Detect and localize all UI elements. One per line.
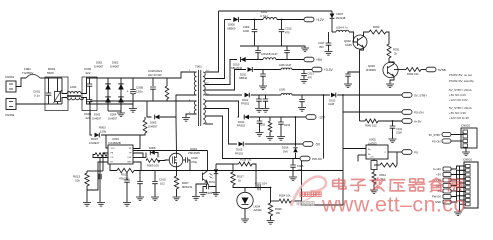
wire xyxy=(277,19,304,21)
resistor R042 xyxy=(371,161,377,170)
wire xyxy=(331,11,333,32)
svg-text:D008: D008 xyxy=(149,146,156,150)
watermark line 1 xyxy=(333,178,463,192)
wire xyxy=(254,69,282,71)
ground xyxy=(199,193,207,197)
wire xyxy=(295,144,297,159)
svg-text:PW-OK: PW-OK xyxy=(312,157,322,161)
wire xyxy=(106,135,140,149)
svg-text:L004 4.7u: L004 4.7u xyxy=(336,26,348,30)
svg-text:45V: 45V xyxy=(319,45,324,49)
terminal +3.3V xyxy=(443,178,451,182)
label D007b xyxy=(336,12,346,20)
resistor R011 xyxy=(95,153,107,157)
wire xyxy=(62,98,67,105)
label R032 xyxy=(407,72,419,76)
svg-text:47k/2W: 47k/2W xyxy=(119,177,129,181)
label L004 xyxy=(336,26,348,30)
wire bus xyxy=(460,166,466,204)
pin 4 xyxy=(189,112,191,114)
wire xyxy=(207,151,209,171)
wire xyxy=(166,99,168,101)
wire xyxy=(207,170,209,172)
label CN502 xyxy=(5,113,15,117)
wire xyxy=(120,78,122,111)
wire xyxy=(292,167,294,176)
svg-text:5V_STBY= 20mA: 5V_STBY= 20mA xyxy=(449,88,472,92)
wire xyxy=(240,46,305,48)
ground xyxy=(182,118,190,122)
ground xyxy=(129,104,137,112)
wire xyxy=(45,78,49,93)
pin 3 xyxy=(189,100,191,102)
svg-text:D010: D010 xyxy=(233,62,240,66)
terminal 5VSB xyxy=(426,67,436,72)
wire xyxy=(81,98,97,105)
capacitor C025 xyxy=(290,159,296,168)
wire xyxy=(311,204,343,206)
resistor R012 xyxy=(117,168,134,172)
svg-text:A+12V: A+12V xyxy=(433,167,441,171)
wire xyxy=(205,70,246,91)
wire xyxy=(292,69,312,71)
svg-text:1000: 1000 xyxy=(243,29,249,33)
label 5V_STBY xyxy=(414,94,427,98)
inductor L005 xyxy=(281,93,292,95)
ground xyxy=(241,219,249,223)
note line 1 xyxy=(449,73,472,77)
transistor Q003 xyxy=(383,62,398,77)
inductor L003 xyxy=(263,58,276,60)
capacitor C006 xyxy=(99,174,101,180)
wire xyxy=(451,196,466,202)
capacitor C015 xyxy=(152,171,158,184)
label 5V_STBY2 xyxy=(429,133,441,137)
label C003 xyxy=(84,112,92,120)
svg-text:A+5V: A+5V xyxy=(414,120,421,124)
label PW-OK xyxy=(432,195,441,199)
svg-text:SB560: SB560 xyxy=(227,26,236,30)
connector CN502 (AC neutral) xyxy=(6,99,16,110)
wire xyxy=(45,95,49,104)
wire xyxy=(205,20,225,79)
capacitor C019 xyxy=(345,74,351,76)
wire xyxy=(103,153,108,171)
label R017 xyxy=(237,175,244,183)
svg-text:0.1u: 0.1u xyxy=(34,94,40,98)
svg-text:D002: D002 xyxy=(112,61,119,65)
wire xyxy=(90,100,197,102)
svg-text:2N3906: 2N3906 xyxy=(366,68,376,72)
transformer T001 secondary winding 1 xyxy=(203,72,205,95)
label R033 xyxy=(259,124,266,127)
wire xyxy=(107,78,109,111)
wire xyxy=(57,78,59,92)
label PW-OK xyxy=(312,157,322,161)
wire xyxy=(270,188,272,204)
label R044 xyxy=(380,173,387,181)
svg-text:+5V NO 4.9V: +5V NO 4.9V xyxy=(449,111,466,115)
label C034 xyxy=(284,124,291,127)
choke L001 xyxy=(67,92,84,100)
wire xyxy=(176,171,178,177)
svg-text:2SK2645: 2SK2645 xyxy=(188,151,200,155)
note line 4 xyxy=(449,93,466,97)
diode U003 opto LED xyxy=(210,169,219,178)
label +5V pin xyxy=(370,157,374,159)
svg-text:FR302: FR302 xyxy=(237,124,246,128)
svg-text:1N4148: 1N4148 xyxy=(336,16,346,20)
terminal A+5V xyxy=(402,119,412,124)
wire xyxy=(337,94,402,96)
svg-text:L003A/B 10uH: L003A/B 10uH xyxy=(261,53,277,56)
ground xyxy=(344,84,352,88)
svg-text:D013: D013 xyxy=(329,98,336,102)
node xyxy=(254,19,256,21)
wire xyxy=(374,152,397,165)
ground xyxy=(123,203,131,207)
resistor R030 xyxy=(369,30,386,34)
svg-text:560K: 560K xyxy=(47,71,54,75)
ground xyxy=(325,52,333,56)
capacitor C009 xyxy=(252,20,258,32)
wire xyxy=(205,60,237,85)
label R041 xyxy=(365,123,377,127)
label U005 xyxy=(368,138,377,146)
label -5V xyxy=(437,189,441,193)
svg-text:D005: D005 xyxy=(150,121,157,125)
node xyxy=(295,116,297,145)
varistor R001 xyxy=(54,90,62,103)
wire xyxy=(153,100,167,102)
svg-text:+12V NO 0.0V: +12V NO 0.0V xyxy=(449,98,468,102)
label GND xyxy=(435,200,441,204)
terminal +5V xyxy=(443,173,451,177)
wire xyxy=(133,157,146,159)
wire xyxy=(134,170,343,172)
node xyxy=(323,94,325,96)
svg-text:+5V NO 0.0V: +5V NO 0.0V xyxy=(449,93,466,97)
wire xyxy=(246,59,263,61)
wire xyxy=(244,209,246,219)
label A+12V xyxy=(433,167,441,171)
terminal +12V xyxy=(304,17,314,22)
svg-text:D004: D004 xyxy=(110,113,117,117)
wire xyxy=(101,135,108,148)
ground xyxy=(370,190,378,194)
wire xyxy=(244,188,246,193)
svg-text:CN501: CN501 xyxy=(5,75,15,79)
label R031 xyxy=(393,48,400,56)
svg-text:+12V: +12V xyxy=(316,18,325,22)
transformer T001 secondary winding 2 xyxy=(203,99,205,124)
capacitor C030 xyxy=(256,95,262,108)
svg-text:R032 10k: R032 10k xyxy=(407,72,419,76)
ground xyxy=(136,197,144,201)
pin 10 xyxy=(206,94,209,96)
ground xyxy=(256,133,264,137)
svg-text:10k: 10k xyxy=(75,179,80,183)
wire xyxy=(451,187,466,191)
pin 7 xyxy=(206,107,208,109)
svg-text:1N4937: 1N4937 xyxy=(148,124,158,128)
watermark line 2 xyxy=(321,193,466,217)
inductor L002 xyxy=(263,18,277,20)
node xyxy=(342,94,344,96)
ground xyxy=(262,109,270,113)
svg-text:5V_STBY: 5V_STBY xyxy=(414,94,427,98)
wire xyxy=(87,162,108,190)
terminal GND xyxy=(443,200,451,204)
label D014 xyxy=(237,120,246,128)
ground xyxy=(117,111,125,117)
diode D003 xyxy=(118,84,124,90)
connector CN001 xyxy=(464,162,478,208)
wire xyxy=(203,187,207,193)
wire xyxy=(158,159,170,162)
svg-text:LM393: LM393 xyxy=(368,141,377,145)
wire xyxy=(354,38,358,42)
wire xyxy=(360,48,364,122)
label Q001 xyxy=(188,147,200,155)
svg-text:D012: D012 xyxy=(242,98,249,102)
wire xyxy=(378,120,402,122)
wire xyxy=(215,164,217,169)
wire xyxy=(302,201,312,205)
EMI filter box xyxy=(45,77,68,111)
wire xyxy=(205,123,213,125)
wire xyxy=(389,62,394,64)
wire xyxy=(292,94,330,96)
svg-text:FR302: FR302 xyxy=(241,102,250,106)
capacitor C034 xyxy=(278,117,284,136)
svg-text:-12V: -12V xyxy=(318,116,326,120)
svg-text:102: 102 xyxy=(160,182,165,186)
svg-text:D001: D001 xyxy=(96,61,103,65)
svg-text:R030: R030 xyxy=(373,25,380,29)
terminal 5V_STBY xyxy=(402,93,412,98)
wire xyxy=(133,72,195,78)
ground xyxy=(454,212,462,216)
label Q002 xyxy=(344,39,352,47)
wire xyxy=(233,185,271,188)
capacitor C018 (snubber) xyxy=(150,87,156,89)
label 817A xyxy=(209,180,215,184)
svg-text:5V_STBY: 5V_STBY xyxy=(429,133,441,137)
pin 14 xyxy=(206,70,209,72)
wire xyxy=(281,32,283,46)
note line 2 xyxy=(449,79,474,83)
wire xyxy=(106,117,145,135)
svg-text:470p: 470p xyxy=(191,160,198,164)
wire xyxy=(219,10,333,12)
svg-text:1N4007: 1N4007 xyxy=(110,64,120,68)
inductor L006 xyxy=(281,68,292,70)
wire xyxy=(40,77,45,79)
wire xyxy=(328,32,330,51)
wire xyxy=(216,163,233,165)
node xyxy=(270,187,272,189)
label -5V xyxy=(315,143,321,147)
svg-text:5V_STBY= 20mA: 5V_STBY= 20mA xyxy=(449,106,472,110)
wire xyxy=(90,101,92,135)
label 5VSB xyxy=(438,68,446,72)
label R003 xyxy=(99,126,107,134)
svg-text:-5V: -5V xyxy=(315,143,321,147)
svg-text:SBL2040: SBL2040 xyxy=(231,66,243,70)
wire xyxy=(392,128,394,138)
wire xyxy=(342,95,344,205)
label D013 xyxy=(328,98,336,106)
wire xyxy=(108,110,121,112)
wire xyxy=(160,116,176,118)
diode D012 xyxy=(245,93,250,98)
wire xyxy=(360,120,366,122)
svg-text:L001: L001 xyxy=(70,85,77,89)
capacitor C005 (bulk) xyxy=(130,90,136,95)
label R026 xyxy=(275,207,282,215)
wire xyxy=(205,11,219,72)
label F001 xyxy=(22,67,33,75)
label D006 xyxy=(227,23,236,31)
label +5V xyxy=(316,58,323,62)
diode D001 xyxy=(105,84,111,90)
svg-text:1N4007: 1N4007 xyxy=(92,116,102,120)
svg-text:L005: L005 xyxy=(279,88,285,92)
svg-text:+: + xyxy=(127,90,129,94)
svg-text:FR102: FR102 xyxy=(235,151,244,155)
wire xyxy=(373,159,375,172)
terminal PW-OK2 xyxy=(402,150,412,155)
wire xyxy=(215,187,217,193)
wire xyxy=(176,189,178,197)
Y-cap box xyxy=(82,77,97,111)
svg-text:1N4007: 1N4007 xyxy=(108,116,118,120)
terminal PW-OK xyxy=(443,195,451,199)
wire xyxy=(154,184,156,197)
svg-text:10k: 10k xyxy=(276,211,281,215)
wire xyxy=(388,151,402,153)
svg-text:PSON=0V, standby: PSON=0V, standby xyxy=(449,79,474,83)
wire xyxy=(100,158,108,174)
resistor R031 xyxy=(387,44,391,58)
wire xyxy=(176,95,197,120)
svg-text:PS-ON: PS-ON xyxy=(432,139,441,143)
diode D011 xyxy=(248,67,253,72)
svg-text:0R5/1W: 0R5/1W xyxy=(182,185,192,189)
wire xyxy=(16,103,45,105)
wire xyxy=(394,69,406,71)
terminal +5V xyxy=(304,57,314,62)
label PW-OK2 xyxy=(414,151,419,155)
wire xyxy=(89,78,91,84)
wire xyxy=(421,69,426,71)
wire xyxy=(175,120,178,153)
wire xyxy=(347,76,349,83)
terminal A+12V xyxy=(443,167,451,171)
capacitor C001 xyxy=(46,93,52,95)
svg-text:KA3842B: KA3842B xyxy=(109,141,121,145)
wire xyxy=(146,153,158,158)
diode D015 xyxy=(239,142,244,147)
ground xyxy=(266,137,274,141)
label L001 xyxy=(70,85,77,89)
svg-text:D011: D011 xyxy=(240,72,247,76)
svg-text:VCC: VCC xyxy=(111,148,116,150)
svg-text:222 47/2W: 222 47/2W xyxy=(148,73,162,77)
svg-text:T001: T001 xyxy=(195,65,202,69)
wire xyxy=(205,109,237,145)
transistor Q002 xyxy=(353,35,367,49)
wire xyxy=(81,78,97,94)
svg-text:PSON=5V, no out: PSON=5V, no out xyxy=(449,73,472,77)
ground xyxy=(259,86,267,90)
wire xyxy=(451,170,466,174)
wire xyxy=(205,116,300,159)
node xyxy=(392,120,394,122)
note line 7 xyxy=(449,111,466,115)
svg-text:CN001: CN001 xyxy=(463,158,472,162)
svg-text:+5V: +5V xyxy=(316,58,323,62)
label L005 xyxy=(279,88,285,92)
label D005 xyxy=(148,121,158,129)
capacitor C033 xyxy=(257,117,263,132)
svg-text:8I7A: 8I7A xyxy=(209,180,215,184)
label T001 xyxy=(195,65,202,69)
capacitor C017 xyxy=(326,43,332,45)
label C005 xyxy=(127,86,144,94)
label L002 xyxy=(260,10,268,18)
wire xyxy=(166,78,168,86)
wire xyxy=(232,164,234,172)
svg-text:R044: R044 xyxy=(380,173,387,177)
terminal -12V xyxy=(443,184,451,188)
wire xyxy=(93,155,100,158)
capacitor C022 xyxy=(258,185,260,191)
wire xyxy=(343,111,402,113)
svg-text:C041: C041 xyxy=(396,127,403,131)
label +5V xyxy=(436,173,441,177)
wire xyxy=(249,116,306,118)
label D012 xyxy=(241,98,250,106)
transformer T001 core xyxy=(199,70,201,126)
wire xyxy=(49,103,63,105)
svg-text:C022 104: C022 104 xyxy=(255,181,267,185)
resistor R009 (gate) xyxy=(146,159,160,163)
wire xyxy=(270,216,272,220)
label D010 xyxy=(231,62,243,70)
label Q003 xyxy=(366,64,376,72)
wire xyxy=(195,71,197,73)
wire xyxy=(97,77,133,79)
pin 5 xyxy=(206,123,208,125)
wire xyxy=(240,19,263,21)
svg-text:C034: C034 xyxy=(284,124,291,127)
watermark logo text xyxy=(300,192,321,196)
resistor R044 xyxy=(372,172,376,184)
capacitor C002 xyxy=(87,84,93,86)
resistor R043 xyxy=(380,163,397,167)
wire xyxy=(87,171,103,173)
wire xyxy=(276,59,304,61)
wire xyxy=(348,72,360,74)
ground xyxy=(267,221,275,225)
label D007 xyxy=(89,137,100,145)
resistor R026 xyxy=(268,203,272,216)
wire xyxy=(176,167,178,171)
wire xyxy=(110,164,117,171)
wire xyxy=(132,78,134,90)
